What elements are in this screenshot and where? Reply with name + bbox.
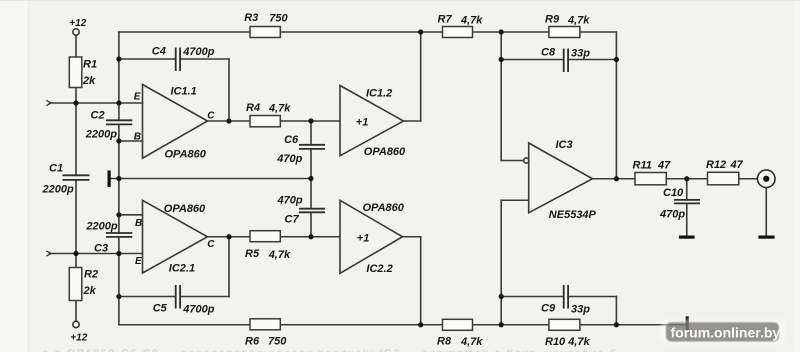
svg-text:R2: R2 [84,269,98,281]
wire C10 branch x=686.75 [686,179,688,200]
svg-text:33p: 33p [571,304,590,316]
capacitor C5 plates [176,285,180,309]
svg-text:C5: C5 [153,303,168,315]
resistor R1 [69,57,82,88]
svg-text:R9: R9 [545,14,560,26]
svg-text:2k: 2k [83,285,97,297]
junction node input2 / left bus [116,251,121,256]
junction node mid rail / C6 / C7 [308,176,313,181]
svg-text:IC3: IC3 [556,139,573,151]
svg-text:OPA860: OPA860 [165,148,207,160]
svg-text:NE5534P: NE5534P [549,209,597,221]
svg-text:2200p: 2200p [42,184,74,196]
svg-text:2200p: 2200p [85,220,117,232]
svg-text:C3: C3 [94,243,108,255]
svg-text:forum.onliner.by: forum.onliner.by [671,325,781,341]
resistor R4 [250,116,280,127]
wire right bus x=616.4 top [615,32,617,179]
wire R12 to output jack y=178.75 [739,178,758,180]
svg-text:4,7k: 4,7k [268,249,291,261]
svg-text:R7: R7 [438,14,453,26]
wire C9 right drop x=616.4 [615,297,617,325]
svg-text:OPA860: OPA860 [363,202,405,214]
junction node C4-left bus [116,56,121,61]
svg-text:E: E [134,91,141,102]
capacitor C1 plates [63,175,90,180]
svg-text:2200p: 2200p [85,129,117,141]
svg-text:OPA860: OPA860 [364,146,406,158]
wire top rail y=32 from left bus to right bus (gaps at R3,R7,R9) [119,31,250,33]
resistor R7 [443,27,473,38]
op-amp IC3 inverting input bubble [524,158,529,163]
resistor R11 [635,173,666,185]
svg-text:750: 750 [269,12,288,24]
capacitor C2 plates [106,120,132,124]
svg-text:C: C [207,239,215,250]
resistor R2 [69,268,82,301]
svg-text:R1: R1 [83,58,97,70]
wire bottom rail y=324.75 (gaps at R6,R8,R10) [119,324,250,326]
op-amp IC3 body [529,143,593,213]
wire IC1.2 output drop x=420.7 [420,32,422,121]
junction node C8 right [614,57,619,62]
svg-text:R3: R3 [244,12,258,24]
svg-text:OPA860: OPA860 [164,203,206,215]
svg-text:C: C [207,111,215,122]
wire IC1.1 B line y=141 [119,140,143,142]
op-amp IC1.1 body [143,85,208,159]
svg-text:47: 47 [730,159,744,171]
input 2 arrow [46,251,51,256]
junction node C8 left [499,57,504,62]
wire C5 line y=296.5 [119,296,176,298]
svg-text:C10: C10 [663,187,684,199]
capacitor C6 plates [299,145,325,149]
svg-text:2k: 2k [82,75,96,87]
junction node bottom rail / IC2.2 output [418,322,423,327]
resistor R8 [443,319,473,330]
svg-text:B: B [135,218,142,229]
wire output jack ground drop x=766.25 [765,188,767,236]
junction node B1 / left bus [116,138,121,143]
resistor R12 [708,172,739,185]
wire mid rail y=178.5 [111,178,312,180]
wire C4 line y=59 [119,58,176,60]
op-amp IC1.2 body [340,86,404,156]
svg-text:470p: 470p [659,209,685,221]
svg-text:C1: C1 [49,163,63,175]
wire IC2.1 B line y=214.8 [119,214,143,216]
svg-text:IC2.2: IC2.2 [366,263,392,275]
svg-text:R12: R12 [706,159,726,171]
svg-text:IC1.1: IC1.1 [171,85,197,97]
svg-text:E: E [135,256,142,267]
wire C4 right drop x=229 [228,59,230,121]
wire IC3 upper bus x=501.2 [500,32,502,161]
svg-text:C6: C6 [284,134,299,146]
svg-text:C7: C7 [285,214,300,226]
svg-text:IC1.2: IC1.2 [366,88,392,100]
wire IC3 lower bus x=501.2 [500,200,502,325]
common terminator bar bottom-right [686,316,689,331]
wire R2 branch x=76 [75,254,77,268]
svg-text:R10: R10 [545,336,566,348]
svg-text:R5: R5 [245,248,260,260]
wire C9 line y=296.5 [501,296,564,298]
wire IC2.1 output to R5 y=236.75 [208,236,251,238]
junction node IC3 output / right bus [614,176,619,181]
svg-text:B: B [134,131,141,142]
ground symbol under C10 [679,236,695,239]
ground symbol under output jack [758,236,774,239]
resistor R10 [549,319,580,330]
svg-text:R8: R8 [437,336,452,348]
capacitor C7 plates [299,209,325,213]
op-amp IC2.1 body [143,200,208,273]
svg-text:4700p: 4700p [182,46,214,58]
wire R5 to IC2.2 input y=236.75 [280,236,340,238]
op-amp IC2.2 body [340,200,403,273]
svg-text:R4: R4 [246,102,260,114]
capacitor C8 plates [564,49,568,73]
svg-text:4,7k: 4,7k [567,15,590,27]
wire C8 line y=59.5 [501,59,564,61]
wire IC3 output y=178.75 [593,178,636,180]
svg-text:4,7k: 4,7k [460,336,483,348]
resistor R3 [250,27,280,38]
capacitor C9 plates [564,285,568,309]
svg-text:R11: R11 [633,160,652,172]
wire IC1.2 output y=121 to drop [404,120,421,122]
junction node IC1.1 output / C4 [226,118,231,123]
svg-text:750: 750 [268,336,287,348]
svg-text:a n OPA860 C6-C9 — onpegenenne: a n OPA860 C6-C9 — onpegenenne nonocy np… [42,349,617,352]
wire input1 line y=103 [50,102,143,104]
capacitor C4 plates [176,48,180,72]
wire IC2.2 output riser x=420.7 [420,237,422,325]
junction node top rail / IC1.2 output [418,29,423,34]
junction node R4 / C6 [308,118,313,123]
svg-text:4,7k: 4,7k [460,15,483,27]
junction node bottom rail / C9 drop [614,322,619,327]
wire IC3 inverting input y=160.5 [501,160,524,162]
resistor R9 [549,27,580,38]
junction node mid rail / left bus [116,176,121,181]
wire IC1.1 output to R4 y=121 [208,120,251,122]
svg-text:+1: +1 [356,116,369,128]
junction node bottom rail / IC3 lower bus [499,322,504,327]
junction node C5-left bus [116,294,121,299]
junction node B2 / left bus [116,212,121,217]
wire C5 right riser x=229 [228,237,230,297]
wire IC3 non-inverting input y=200.25 [501,199,529,201]
wire C7 branch x=311 [310,179,312,209]
svg-text:470p: 470p [276,153,302,165]
wire R11 to R12 y=178.75 [666,178,707,180]
capacitor C3 plates [106,233,132,237]
wire C1 branch x=76 (gap at C1 plates) [75,103,77,175]
svg-text:+1: +1 [357,233,370,245]
wire C6 branch x=311 [310,121,312,145]
svg-text:IC2.1: IC2.1 [169,263,195,275]
junction node input1 / R1 [73,100,78,105]
wire left bus x=118.9 (gaps at C2,C3) [118,32,120,120]
+12 supply terminal top [69,18,86,35]
resistor R5 [250,231,280,242]
junction node input2 / R2 [73,251,78,256]
junction node C9 left [499,294,504,299]
junction node top rail / IC3 upper bus [499,29,504,34]
junction node IC2.1 output / C5 [226,234,231,239]
svg-text:33p: 33p [571,48,590,60]
svg-text:C2: C2 [91,110,105,122]
svg-text:C4: C4 [152,46,166,58]
svg-text:+12: +12 [70,332,87,343]
svg-text:4700p: 4700p [182,304,214,316]
svg-text:+12: +12 [69,18,86,29]
junction node R5 / C7 [308,234,313,239]
output jack connector [757,170,775,188]
svg-text:4,7k: 4,7k [268,103,291,115]
watermark forum.onliner.by [661,320,785,345]
resistor R6 [250,319,280,330]
svg-text:470p: 470p [277,195,303,207]
+12 supply terminal bottom [70,321,87,343]
wire input2 line y=253.5 [50,253,143,255]
svg-text:C9: C9 [541,302,556,314]
svg-text:47: 47 [657,159,671,171]
junction node input1 / left bus [116,100,121,105]
capacitor C10 plates [674,200,700,204]
junction node R11 / C10 / R12 [684,176,689,181]
svg-text:R6: R6 [245,336,260,348]
svg-text:C8: C8 [541,46,556,58]
svg-text:4,7k: 4,7k [567,336,590,348]
wire IC2.2 output y=236.75 to drop [403,236,421,238]
input 1 arrow [46,100,51,105]
wire R4 to IC1.2 input y=121 [280,120,340,122]
wire R1 branch x=76 [75,36,77,58]
common terminator bar mid-left [108,171,111,188]
